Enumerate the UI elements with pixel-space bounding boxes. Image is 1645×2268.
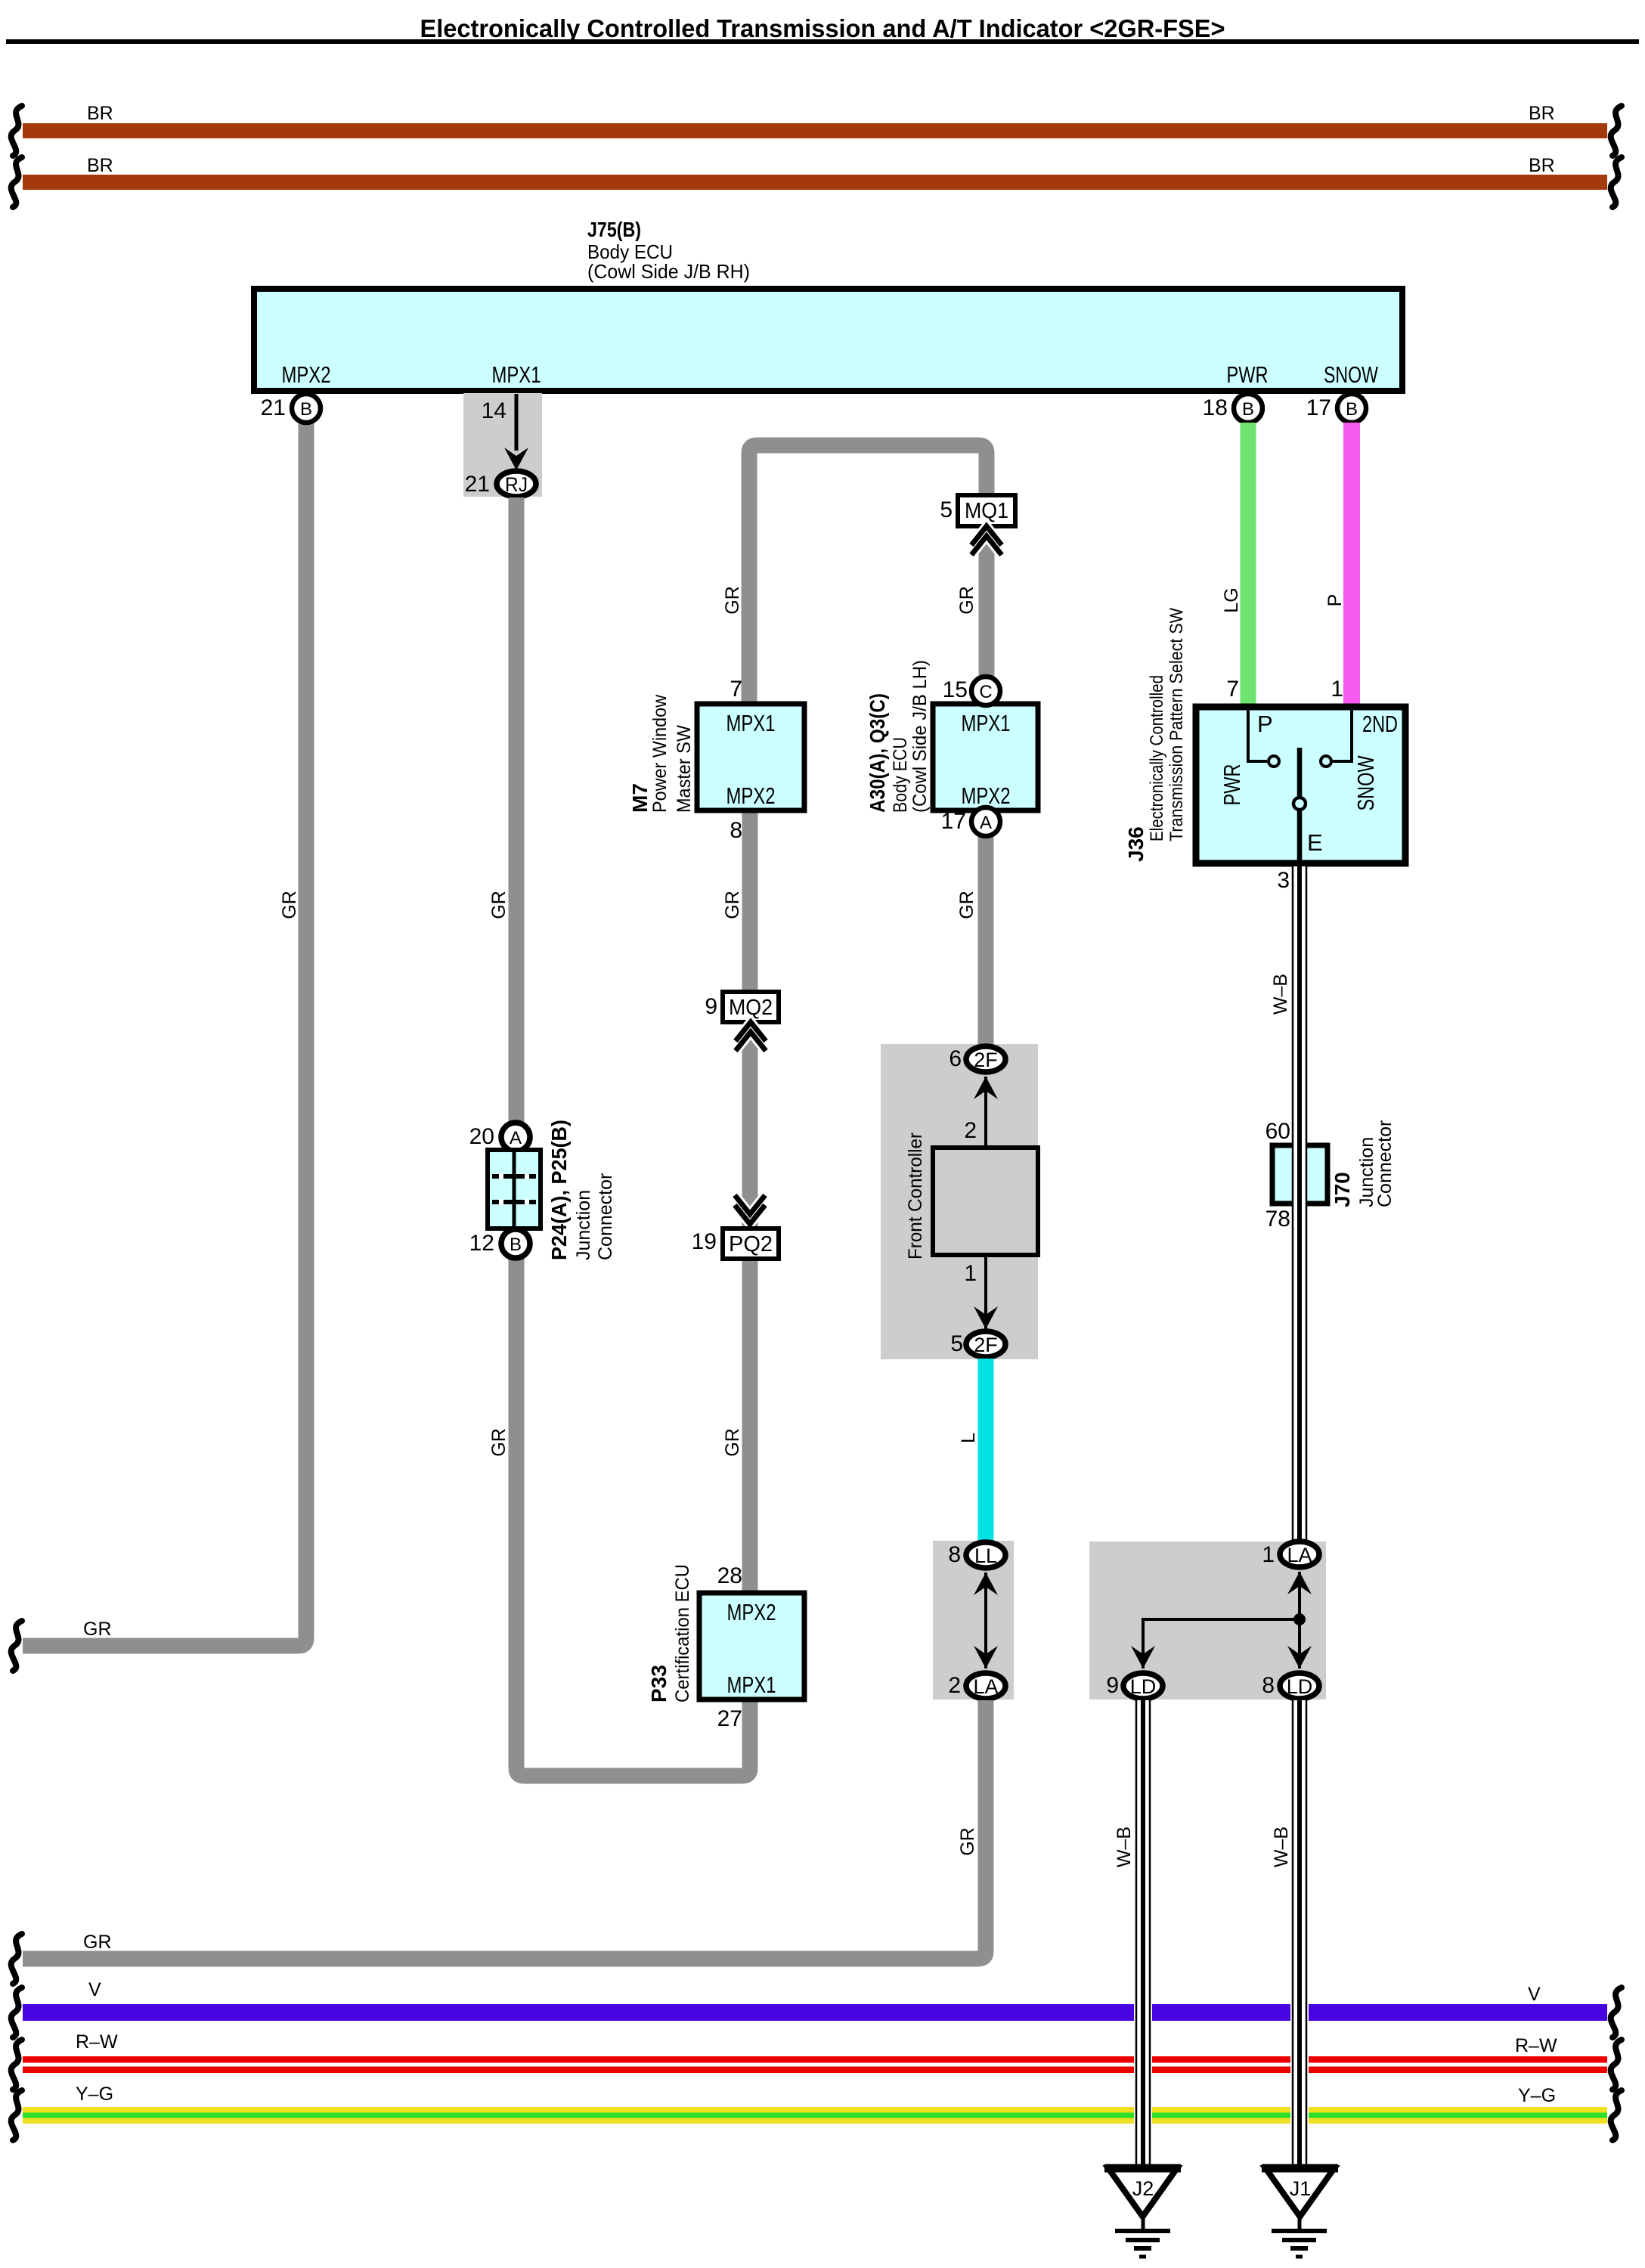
terminal LL pin 8	[966, 1542, 1005, 1568]
wire BR upper	[23, 123, 1607, 138]
svg-text:A30(A), Q3(C): A30(A), Q3(C)	[866, 693, 889, 813]
J36 box	[1196, 707, 1405, 863]
break symbol BR upper-right	[1611, 106, 1622, 156]
branch wire to LD(9)	[1143, 1619, 1300, 1668]
svg-text:LG: LG	[1221, 587, 1242, 612]
switch pole E	[1297, 748, 1303, 798]
gray J/B zone LL-LA	[933, 1541, 1014, 1699]
svg-text:J1: J1	[1290, 2177, 1312, 2200]
svg-text:17: 17	[1306, 395, 1331, 420]
svg-text:17: 17	[941, 809, 966, 834]
svg-text:(Cowl Side J/B RH): (Cowl Side J/B RH)	[587, 260, 750, 283]
svg-text:E: E	[1307, 829, 1323, 856]
svg-text:Electronically Controlled Tran: Electronically Controlled Transmission a…	[420, 14, 1225, 42]
ECU A30(A) Q3(C) box	[933, 704, 1038, 810]
svg-text:GR: GR	[488, 1428, 510, 1457]
svg-text:Body ECU: Body ECU	[890, 737, 911, 813]
svg-text:BR: BR	[87, 103, 113, 124]
ground J2	[1104, 2168, 1181, 2257]
svg-text:V: V	[1528, 1984, 1541, 2005]
svg-text:GR: GR	[488, 891, 510, 919]
chevron marker below MQ2	[736, 1022, 766, 1051]
svg-text:LA: LA	[1287, 1544, 1312, 1566]
switch contact 2ND side	[1333, 708, 1352, 761]
svg-text:PWR: PWR	[1219, 764, 1245, 806]
svg-text:78: 78	[1266, 1207, 1290, 1232]
svg-text:1: 1	[1262, 1542, 1275, 1567]
svg-text:MPX1: MPX1	[727, 1672, 776, 1698]
svg-text:(Cowl Side J/B LH): (Cowl Side J/B LH)	[909, 660, 931, 813]
svg-text:6: 6	[949, 1046, 962, 1071]
svg-text:Junction: Junction	[573, 1190, 594, 1260]
wire GR from MQ1 down to C circle	[979, 531, 995, 678]
svg-text:21: 21	[261, 395, 286, 420]
ECU P33 Certification ECU box	[699, 1593, 804, 1699]
gray J/B zone Front Controller	[881, 1044, 1038, 1359]
svg-text:R–W: R–W	[1515, 2035, 1557, 2056]
title underline	[6, 39, 1639, 44]
svg-text:GR: GR	[957, 1827, 978, 1856]
svg-text:W–B: W–B	[1270, 974, 1291, 1015]
svg-text:SNOW: SNOW	[1324, 361, 1379, 388]
svg-text:18: 18	[1203, 395, 1228, 420]
svg-text:J75(B): J75(B)	[587, 218, 641, 241]
svg-text:14: 14	[482, 398, 507, 423]
svg-text:5: 5	[940, 497, 953, 522]
break symbol V right	[1611, 1988, 1622, 2037]
svg-text:Connector: Connector	[1374, 1120, 1396, 1207]
switch M7 Power Window Master SW box	[697, 704, 804, 810]
wire Y-G yellow/green	[23, 2107, 1607, 2124]
svg-text:8: 8	[948, 1542, 961, 1567]
junction dot	[1293, 1613, 1306, 1625]
wire GR from A30 pin A down to 2F pin 6	[978, 836, 994, 1046]
svg-text:21: 21	[465, 472, 490, 497]
wire GR from M7 pin8 down to P33 pin 28	[742, 810, 758, 1593]
arrow from pin 14 to RJ	[515, 394, 519, 451]
ground J1	[1262, 2168, 1338, 2257]
break symbol GR bottom left	[11, 1934, 22, 1984]
svg-text:RJ: RJ	[505, 473, 528, 496]
break symbol BR lower-right	[1611, 157, 1622, 207]
svg-text:2: 2	[964, 1118, 977, 1143]
break symbol R-W left	[11, 2040, 22, 2090]
svg-text:1: 1	[1331, 677, 1343, 702]
wire P pink from B(17) to J36 pin 1	[1343, 423, 1360, 707]
gray sleeve box at J75 MPX1 pin 14	[463, 393, 542, 497]
svg-text:P: P	[1257, 711, 1273, 737]
svg-text:MPX1: MPX1	[726, 710, 776, 736]
svg-text:MPX1: MPX1	[492, 361, 541, 388]
svg-text:PWR: PWR	[1227, 361, 1269, 388]
svg-text:9: 9	[705, 994, 717, 1019]
svg-text:B: B	[300, 399, 312, 420]
svg-text:L: L	[958, 1433, 979, 1443]
terminal B of P25	[501, 1229, 530, 1258]
svg-text:MPX2: MPX2	[726, 782, 776, 809]
svg-text:Certification ECU: Certification ECU	[672, 1564, 693, 1703]
wire GR from M7 pin7 up over to MQ1	[749, 445, 987, 704]
wire W-B from LD(8) to ground J1	[1293, 1700, 1306, 2168]
svg-text:60: 60	[1266, 1119, 1290, 1144]
svg-text:LA: LA	[973, 1675, 998, 1698]
terminal B of pin 21	[292, 394, 321, 423]
terminal 2F pin 5	[966, 1331, 1005, 1357]
terminal A of P24	[501, 1123, 530, 1151]
svg-text:GR: GR	[83, 1932, 112, 1953]
break symbol R-W right	[1611, 2040, 1622, 2090]
break symbol GR left edge	[11, 1621, 22, 1671]
svg-text:PQ2: PQ2	[729, 1232, 773, 1256]
svg-text:MPX1: MPX1	[962, 710, 1011, 736]
wire BR lower	[23, 175, 1607, 190]
svg-text:8: 8	[1262, 1673, 1275, 1698]
svg-text:GR: GR	[956, 586, 977, 615]
svg-text:C: C	[979, 682, 992, 702]
svg-text:19: 19	[692, 1229, 717, 1254]
svg-text:P: P	[1324, 594, 1346, 607]
svg-text:28: 28	[717, 1563, 742, 1588]
chevron marker below MQ1	[971, 526, 1002, 555]
arrow up into 2F(6)	[984, 1077, 987, 1148]
wire R-W red/white	[23, 2056, 1607, 2073]
svg-text:P33: P33	[647, 1665, 671, 1703]
svg-text:15: 15	[943, 677, 968, 702]
wire GR from J75 pin 21(B) down and left to edge	[23, 420, 306, 1646]
connector RJ	[497, 471, 536, 497]
terminal C of A30	[971, 677, 1000, 705]
break symbol V left	[11, 1988, 22, 2037]
svg-text:9: 9	[1106, 1673, 1119, 1698]
svg-text:2ND: 2ND	[1362, 711, 1398, 737]
svg-text:2: 2	[948, 1673, 961, 1698]
svg-text:1: 1	[964, 1261, 977, 1286]
terminal B of pin 18	[1234, 394, 1262, 423]
svg-text:V: V	[88, 1979, 101, 2000]
svg-text:Electronically Controlled: Electronically Controlled	[1147, 675, 1167, 841]
svg-text:12: 12	[469, 1231, 494, 1256]
svg-text:BR: BR	[87, 155, 113, 176]
svg-text:2F: 2F	[974, 1334, 998, 1356]
svg-text:3: 3	[1277, 868, 1290, 893]
svg-text:Y–G: Y–G	[76, 2084, 113, 2105]
wire V purple	[23, 2004, 1134, 2021]
svg-text:MPX2: MPX2	[282, 361, 331, 388]
svg-text:BR: BR	[1529, 103, 1555, 124]
svg-text:7: 7	[730, 677, 742, 702]
terminal A of A30	[971, 807, 1000, 836]
svg-text:Master SW: Master SW	[674, 725, 695, 813]
svg-text:M7: M7	[628, 783, 652, 813]
ECU J75(B) box	[254, 289, 1402, 391]
svg-text:SNOW: SNOW	[1352, 755, 1379, 811]
svg-text:2F: 2F	[974, 1049, 998, 1071]
terminal 2F pin 6	[966, 1046, 1005, 1072]
svg-text:B: B	[510, 1235, 522, 1255]
svg-text:B: B	[1346, 399, 1358, 420]
svg-text:LL: LL	[974, 1545, 997, 1567]
svg-text:A: A	[510, 1128, 522, 1148]
svg-text:MPX2: MPX2	[727, 1599, 776, 1625]
svg-text:J36: J36	[1124, 826, 1148, 862]
svg-text:8: 8	[730, 818, 742, 843]
svg-text:GR: GR	[956, 891, 977, 919]
svg-text:W–B: W–B	[1271, 1826, 1292, 1867]
chevron marker above PQ2	[735, 1195, 765, 1224]
link LA(1) to LD(8) with junction dot	[1298, 1572, 1301, 1668]
break symbol BR upper-left	[11, 106, 22, 156]
svg-text:J2: J2	[1132, 2177, 1154, 2200]
svg-text:Power Window: Power Window	[649, 694, 671, 813]
svg-text:J70: J70	[1331, 1172, 1354, 1207]
svg-text:GR: GR	[279, 891, 300, 919]
terminal LA pin 1	[1280, 1541, 1319, 1567]
svg-text:7: 7	[1226, 677, 1239, 702]
svg-text:5: 5	[950, 1331, 963, 1356]
svg-text:B: B	[1242, 399, 1254, 420]
svg-text:W–B: W–B	[1114, 1826, 1135, 1867]
switch contact P side	[1248, 708, 1267, 761]
svg-text:GR: GR	[722, 1428, 743, 1457]
svg-text:A: A	[980, 813, 992, 833]
break symbol Y-G right	[1611, 2090, 1622, 2140]
svg-text:P24(A), P25(B): P24(A), P25(B)	[547, 1120, 571, 1260]
svg-text:LD: LD	[1287, 1675, 1313, 1698]
Front Controller box	[933, 1148, 1038, 1255]
svg-text:BR: BR	[1529, 155, 1555, 176]
wire W-B from LD(9) to ground J2	[1136, 1700, 1150, 2168]
arrow link LL to LA	[984, 1572, 987, 1668]
svg-text:Connector: Connector	[595, 1173, 616, 1260]
terminal LA pin 2	[966, 1673, 1005, 1699]
terminal LD pin 9	[1123, 1673, 1163, 1699]
svg-text:GR: GR	[722, 586, 743, 615]
terminal LD pin 8	[1280, 1673, 1319, 1699]
svg-text:Front Controller: Front Controller	[905, 1132, 926, 1259]
svg-text:27: 27	[717, 1706, 742, 1731]
svg-text:GR: GR	[722, 891, 743, 919]
svg-text:Y–G: Y–G	[1518, 2085, 1556, 2106]
svg-text:LD: LD	[1130, 1675, 1157, 1698]
wire GR from RJ down to P33 MPX1 pin 27	[516, 497, 750, 1776]
P24 grid box	[488, 1150, 541, 1228]
gray J/B zone LA-LD	[1089, 1541, 1326, 1699]
svg-text:R–W: R–W	[76, 2031, 118, 2053]
svg-text:Transmission Pattern Select SW: Transmission Pattern Select SW	[1166, 608, 1187, 841]
wire W-B from J36 E down to LA(1)	[1293, 866, 1306, 1542]
svg-text:GR: GR	[83, 1619, 112, 1640]
wire GR from LA(2) down to left edge	[23, 1700, 986, 1959]
arrow down to 2F(5)	[984, 1255, 987, 1329]
break symbol BR lower-left	[11, 157, 22, 207]
wire LG from B(18) to J36 pin 7	[1241, 423, 1256, 707]
wire L cyan from 2F(5) to LL(8)	[978, 1359, 994, 1544]
terminal B of pin 17	[1337, 394, 1366, 423]
break symbol Y-G left	[11, 2090, 22, 2140]
svg-text:20: 20	[469, 1124, 494, 1149]
